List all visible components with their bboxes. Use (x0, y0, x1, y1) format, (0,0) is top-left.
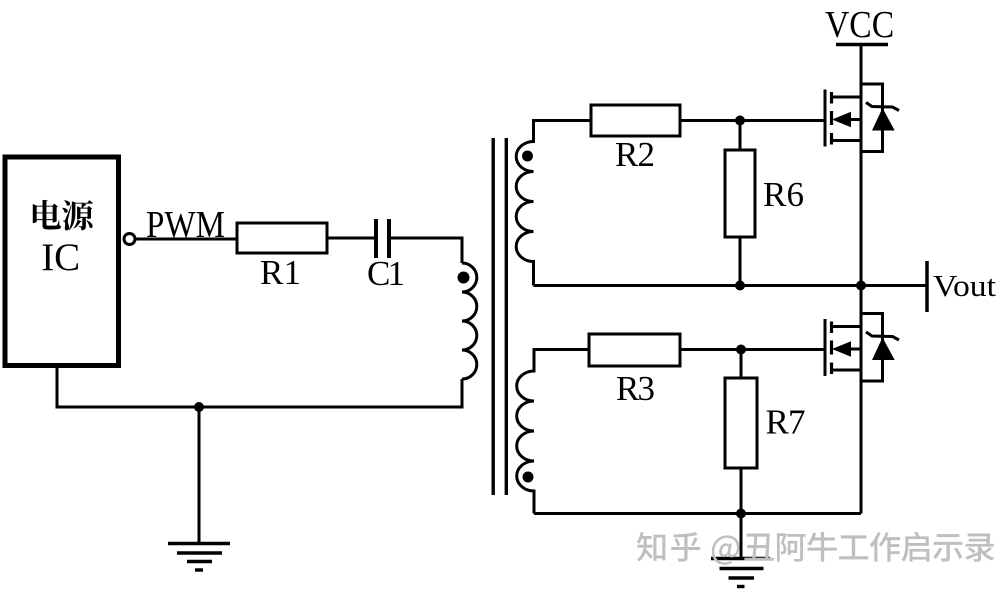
node Q1 drain junction (856, 281, 866, 291)
wire bottom rail (534, 512, 861, 515)
node bottom rail junction (736, 509, 746, 519)
wire pin to R1 (135, 238, 237, 241)
wire R3 to Q2 gate (680, 348, 824, 351)
primary phase dot (458, 272, 470, 284)
Vout terminal bar (925, 261, 929, 312)
MOSFET Q1 gate bar (824, 90, 827, 147)
transformer T1 primary winding (462, 263, 477, 379)
node R3/R7 junction (736, 345, 746, 355)
U1 label dianyuan (CJK) (33, 200, 93, 231)
transformer core (493, 138, 506, 495)
node R6 bottom junction (735, 281, 745, 291)
transformer secondary winding top (516, 121, 533, 286)
node primary-gnd junction (194, 402, 204, 412)
wire primary to ground rail (57, 368, 462, 407)
resistor R2 (591, 105, 680, 136)
VCC terminal bar (836, 43, 888, 47)
svg-text:C1: C1 (367, 254, 405, 293)
Q2 source/drain stubs (832, 327, 862, 371)
svg-text:R3: R3 (616, 369, 655, 408)
MOSFET Q2 gate bar (824, 319, 827, 376)
PWM pin terminal circle (124, 234, 135, 245)
ground 1 (168, 407, 230, 570)
svg-text:Vout: Vout (933, 269, 997, 303)
transformer secondary winding bottom (517, 350, 534, 514)
body diode of Q1 (861, 84, 899, 152)
wire R1 to C1 (327, 237, 374, 240)
resistor R3 (589, 334, 680, 366)
secondary top phase dot (522, 151, 533, 162)
Q2 channel segments (830, 322, 833, 375)
body diode of Q2 (861, 314, 899, 382)
node R2/R6 junction (735, 116, 745, 126)
power IC U1 box (5, 157, 119, 366)
Q1 channel segments (830, 92, 833, 145)
watermark zhihu (gray CJK) (637, 532, 994, 565)
wire C1 to transformer primary (391, 238, 462, 263)
svg-text:R1: R1 (260, 253, 301, 292)
wire secondary bottom to R3 (533, 348, 590, 351)
wire Q1 drain down / Q2 to bottom rail (860, 286, 863, 514)
wire secondary top to R2 (532, 119, 591, 122)
svg-text:R6: R6 (763, 175, 804, 214)
svg-text:R2: R2 (615, 135, 655, 174)
wire VCC to Q1 and drain to Vout rail (860, 45, 863, 286)
svg-text:VCC: VCC (825, 3, 894, 45)
resistor R7 (725, 350, 757, 514)
wire Vout rail (534, 284, 928, 287)
resistor R6 (725, 121, 755, 286)
Q1 source/drain stubs (832, 97, 862, 141)
secondary bottom phase dot (523, 472, 534, 483)
svg-text:R7: R7 (766, 403, 806, 442)
svg-text:IC: IC (41, 236, 80, 279)
resistor R1 (237, 223, 327, 253)
wire R2 to Q1 gate (680, 119, 824, 122)
Q2 body arrow (832, 341, 851, 356)
capacitor C1 (376, 219, 389, 258)
Q1 body arrow (832, 112, 851, 127)
ground 2 (711, 514, 770, 587)
